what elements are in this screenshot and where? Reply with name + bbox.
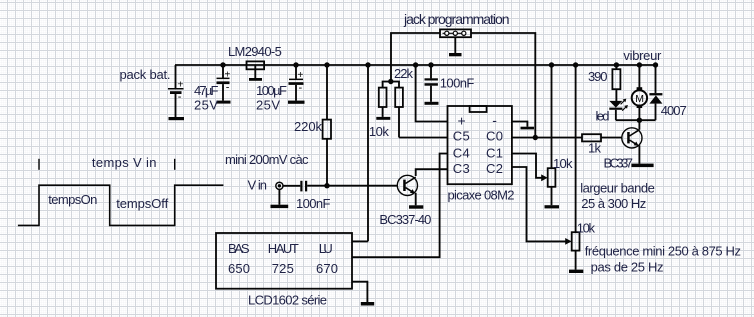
svg-text:-: - [226, 82, 230, 94]
svg-text:220k: 220k [294, 119, 323, 134]
tick left [38, 159, 40, 170]
capacitor 100uF [289, 65, 304, 101]
ground 100nF decoupling [425, 102, 439, 105]
node junction 100nF on rail [428, 62, 433, 67]
svg-text:C3: C3 [453, 161, 470, 176]
svg-text:BC337-40: BC337-40 [379, 212, 431, 227]
wire - pin to ground [512, 122, 528, 127]
svg-text:LM2940-5: LM2940-5 [228, 44, 282, 59]
tick right [174, 159, 176, 170]
wire C0 to 1k [512, 137, 582, 139]
svg-text:47µF: 47µF [194, 83, 219, 98]
svg-text:-: - [178, 91, 182, 103]
svg-text:temps V in: temps V in [92, 155, 157, 170]
svg-text:10k: 10k [553, 156, 573, 171]
svg-text:25V: 25V [256, 97, 280, 112]
svg-text:led: led [596, 109, 610, 124]
ground pot frequence [569, 270, 583, 273]
wire C3 to BC337-40 collector [416, 169, 448, 176]
capacitor 47uF [217, 65, 231, 101]
capacitor 100nF input coupling [300, 181, 307, 192]
wire V in terminal to ground [278, 189, 280, 204]
wire LCD supply from rail [365, 62, 370, 67]
svg-text:C4: C4 [453, 146, 470, 161]
svg-text:pack bat.: pack bat. [120, 67, 171, 82]
ground 10k [376, 117, 390, 120]
diode LED [609, 89, 628, 120]
svg-text:LU: LU [319, 241, 333, 256]
svg-text:vibreur: vibreur [623, 48, 662, 63]
svg-text:725: 725 [272, 261, 294, 276]
svg-text:25V: 25V [194, 97, 218, 112]
potentiometer 10k largeur bande [548, 65, 556, 205]
node junction motor bottom collector [637, 118, 642, 123]
wire C2 to pot frequence [512, 167, 568, 241]
wire picaxe + pin to rail [413, 62, 418, 67]
svg-text:LCD1602 série: LCD1602 série [248, 293, 327, 308]
svg-text:650: 650 [228, 261, 250, 276]
svg-text:C2: C2 [486, 161, 503, 176]
regulator U LM2940-5 [247, 61, 265, 78]
svg-text:100nF: 100nF [296, 196, 331, 211]
resistor 22k serial [395, 88, 403, 138]
capacitor 100nF decoupling [425, 65, 438, 102]
svg-text:1k: 1k [588, 140, 602, 155]
resistor 1k [582, 134, 601, 141]
svg-text:100µF: 100µF [256, 83, 287, 98]
motor M vibreur [632, 65, 647, 120]
svg-text:22k: 22k [394, 66, 414, 81]
waveform square wave [18, 185, 224, 225]
wire C4 serial to LCD [352, 154, 448, 258]
wiper arrow pot largeur [541, 174, 547, 181]
svg-text:mini 200mV càc: mini 200mV càc [225, 152, 309, 167]
svg-text:fréquence mini 250 à 875 Hz: fréquence mini 250 à 875 Hz [585, 244, 741, 259]
node junction 100uF on rail [293, 62, 298, 67]
svg-text:100nF: 100nF [440, 75, 475, 90]
svg-text:390: 390 [588, 69, 608, 84]
svg-text:tempsOn: tempsOn [48, 192, 97, 207]
svg-text:-: - [492, 112, 497, 128]
node junction pot1 on rail [549, 62, 554, 67]
node junction 220k to base wire [324, 183, 329, 188]
svg-text:largeur bande: largeur bande [580, 181, 655, 196]
wire jack right to C0 [471, 33, 535, 138]
svg-text:BAS: BAS [228, 241, 250, 256]
svg-text:+: + [177, 79, 183, 91]
battery pack bat. [168, 65, 184, 117]
wire C5 serial in [399, 137, 448, 139]
terminal V in [276, 182, 301, 189]
ground pot largeur [545, 205, 560, 208]
svg-text:10k: 10k [577, 221, 596, 236]
svg-text:M: M [635, 93, 644, 105]
node junction C0 jack [533, 135, 538, 140]
ground LCD [361, 302, 374, 306]
resistor 390 [612, 65, 620, 89]
ground battery [169, 117, 185, 120]
svg-text:+: + [458, 113, 466, 129]
svg-text:C1: C1 [486, 146, 503, 161]
svg-text:670: 670 [316, 261, 338, 276]
node junction pot2 on rail [573, 62, 578, 67]
svg-text:10k: 10k [369, 124, 390, 139]
resistor 220k [323, 65, 331, 186]
svg-text:+: + [225, 70, 231, 81]
svg-text:jack programmation: jack programmation [403, 11, 510, 27]
node junction 390 on rail [614, 62, 619, 67]
svg-text:tempsOff: tempsOff [116, 196, 168, 211]
svg-text:C5: C5 [453, 129, 470, 144]
ground BC337-40 emitter [409, 205, 423, 208]
svg-text:V in: V in [248, 177, 268, 192]
connector jack J1 [440, 29, 471, 37]
display LCD1602 [216, 233, 352, 289]
wire C1 to pot largeur [512, 154, 544, 178]
svg-text:pas de 25 Hz: pas de 25 Hz [591, 259, 664, 274]
node junction 220k on rail [324, 62, 329, 67]
resistor 10k to ground [379, 88, 387, 117]
node junction diode on rail [653, 62, 658, 67]
transistor Q1 BC337-40 [397, 175, 417, 205]
wire LCD power [352, 240, 368, 242]
diode 4007 flyback [649, 65, 662, 120]
svg-text:C0: C0 [486, 129, 503, 144]
svg-text:HAUT: HAUT [268, 241, 299, 256]
transistor Q2 BC337 [622, 120, 642, 163]
svg-text:-: - [299, 82, 303, 94]
wiper arrow pot frequence [565, 238, 571, 245]
ground 47uF [217, 101, 231, 104]
wire jack left to divider [391, 33, 440, 82]
wire 1k to BC337 base [601, 137, 622, 139]
svg-text:25 à 300 Hz: 25 à 300 Hz [581, 196, 646, 211]
potentiometer 10k frequence [572, 65, 580, 270]
wire jack middle pin to ground [454, 37, 456, 53]
ground BC337 emitter [631, 164, 653, 168]
wire divider branch [383, 82, 399, 88]
svg-text:picaxe 08M2: picaxe 08M2 [448, 188, 515, 203]
ground 100uF [288, 101, 305, 104]
svg-text:+: + [298, 70, 304, 81]
ground V in [271, 205, 289, 208]
wire +5V top rail [175, 64, 656, 66]
node junction motor on rail [637, 62, 642, 67]
node junction 47uF on rail [220, 62, 225, 67]
svg-text:4007: 4007 [661, 103, 687, 118]
node junction 22k divider [388, 79, 393, 84]
wire LCD ground [352, 282, 367, 302]
wire LED motor diode bottom node [616, 119, 656, 121]
wire V in coupling to base [307, 185, 397, 187]
op-amp U1 picaxe 08M2 [448, 106, 512, 184]
ground LM2940 [249, 78, 262, 81]
ground minus pin [521, 127, 535, 130]
ground jack [449, 53, 462, 56]
svg-text:BC337: BC337 [604, 156, 634, 171]
